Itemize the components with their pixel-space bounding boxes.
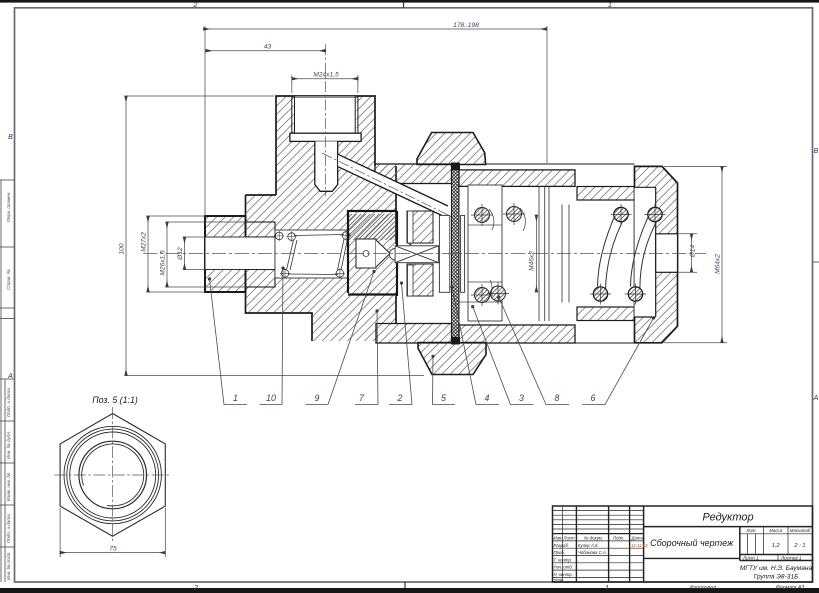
- svg-text:Лит.: Лит.: [745, 528, 756, 533]
- svg-text:Взам. инв. №: Взам. инв. №: [6, 473, 11, 501]
- dim M24x1.5: [291, 75, 293, 93]
- hatched body of reducer: upper part, part 2: [246, 96, 397, 230]
- svg-text:100: 100: [119, 243, 126, 254]
- hex nut boss bottom: [418, 343, 486, 375]
- svg-text:Группа Э8-31Б: Группа Э8-31Б: [754, 574, 800, 581]
- M24 port bore (white plug): [294, 96, 357, 133]
- svg-text:Перв. примен.: Перв. примен.: [6, 191, 11, 222]
- spring chamber white: [275, 230, 348, 278]
- svg-text:Дата: Дата: [631, 536, 644, 541]
- svg-text:Разраб.: Разраб.: [554, 543, 570, 548]
- hex nut boss top, part 5: [417, 133, 486, 165]
- svg-text:9: 9: [315, 393, 320, 403]
- dim 43: [206, 50, 326, 52]
- dim Ø14: [678, 233, 698, 235]
- inclined passage (white channel): [338, 154, 448, 216]
- dim M27x2: [148, 215, 205, 217]
- housing tube walls: [577, 187, 635, 201]
- svg-text:Утв.: Утв.: [554, 577, 564, 582]
- svg-text:Инв. № дубл.: Инв. № дубл.: [6, 431, 11, 459]
- svg-text:М46х2: М46х2: [529, 251, 536, 271]
- body outline upper: [246, 96, 397, 341]
- svg-text:2: 2: [193, 585, 198, 592]
- svg-text:Подп. и дата: Подп. и дата: [6, 388, 11, 417]
- svg-text:Ø12: Ø12: [177, 247, 184, 261]
- svg-text:Т. контр.: Т. контр.: [554, 557, 573, 562]
- dim 100: [126, 95, 274, 97]
- svg-text:1: 1: [233, 393, 238, 403]
- bottom black strip: [0, 588, 819, 593]
- svg-text:5: 5: [441, 393, 446, 403]
- svg-text:Сборочный чертеж: Сборочный чертеж: [650, 538, 734, 548]
- port centreline: [325, 44, 327, 196]
- svg-text:2: 2: [193, 2, 198, 9]
- svg-text:Поз. 5 (1:1): Поз. 5 (1:1): [92, 395, 138, 405]
- cap spring chamber notch (white): [635, 187, 656, 317]
- tube silhouette lines: [486, 163, 635, 165]
- dim 178..198: [204, 26, 206, 216]
- plug stem: [315, 141, 338, 191]
- zone tick bottom: [404, 582, 406, 588]
- passage centreline: [322, 153, 452, 217]
- hexagon: [60, 414, 165, 537]
- svg-text:10: 10: [266, 393, 276, 403]
- dimension texts: [119, 22, 722, 276]
- svg-text:МГТУ им. Н.Э. Баумана: МГТУ им. Н.Э. Баумана: [740, 565, 813, 572]
- dim M46x2: [535, 215, 537, 292]
- valve cage part 9: [348, 211, 397, 296]
- svg-text:4: 4: [485, 393, 490, 403]
- valve guide above/below seal: [407, 211, 433, 243]
- svg-text:Изм.: Изм.: [554, 536, 563, 541]
- svg-text:2: 2: [397, 393, 403, 403]
- retainer pins: [475, 207, 522, 303]
- dim M26x1.5: [167, 221, 205, 223]
- svg-text:Листов 1: Листов 1: [780, 556, 802, 561]
- zone tick right: [813, 261, 819, 263]
- svg-text:Кулер А.К.: Кулер А.К.: [578, 543, 599, 548]
- svg-text:Нач. отд.: Нач. отд.: [554, 565, 573, 570]
- fitting tube walls: [246, 222, 276, 237]
- svg-text:Лист: Лист: [563, 536, 575, 541]
- dim 75: [60, 508, 165, 557]
- horizontals: [644, 526, 813, 528]
- small rows top-left: [553, 510, 644, 512]
- top black strip: [0, 0, 819, 3]
- svg-text:Н. контр.: Н. контр.: [554, 572, 573, 577]
- main axis centreline: [143, 253, 706, 255]
- svg-text:8: 8: [555, 393, 560, 403]
- svg-text:6: 6: [591, 393, 596, 403]
- svg-text:В: В: [8, 134, 13, 141]
- svg-text:Формат А3: Формат А3: [776, 585, 804, 591]
- rubber seal bow-tie: [389, 243, 438, 266]
- svg-text:Копировал: Копировал: [690, 585, 716, 591]
- svg-text:Проб.: Проб.: [554, 550, 566, 555]
- svg-text:1: 1: [605, 585, 609, 592]
- svg-text:1: 1: [608, 2, 612, 9]
- dim M64x2: [664, 165, 727, 167]
- svg-text:Подп. и дата: Подп. и дата: [6, 514, 11, 543]
- svg-text:Справ. №: Справ. №: [6, 269, 11, 290]
- svg-text:Подп.: Подп.: [613, 536, 624, 541]
- plug flange plate: [290, 133, 361, 141]
- title block texts: [650, 512, 812, 581]
- svg-text:В: В: [814, 148, 819, 155]
- svg-text:№ докум.: № докум.: [584, 536, 603, 541]
- svg-text:Масштаб: Масштаб: [790, 528, 811, 533]
- svg-text:Редуктор: Редуктор: [702, 512, 753, 524]
- big spring part 8: [598, 209, 660, 292]
- svg-text:3: 3: [519, 393, 524, 403]
- svg-text:12.11.13: 12.11.13: [631, 543, 648, 548]
- bottom flange band: [376, 324, 452, 344]
- svg-text:М26х1,5: М26х1,5: [160, 250, 167, 276]
- svg-text:М64х2: М64х2: [715, 254, 722, 274]
- svg-text:Инв. № подл.: Инв. № подл.: [6, 551, 11, 580]
- svg-text:Ø14: Ø14: [690, 244, 697, 258]
- svg-text:43: 43: [264, 44, 272, 51]
- left fitting part 1: threaded body: [205, 216, 246, 292]
- svg-text:М24х1,5: М24х1,5: [313, 72, 339, 79]
- top flange band: [375, 164, 452, 184]
- detail centrelines: [112, 407, 114, 542]
- svg-text:178..198: 178..198: [453, 22, 479, 29]
- dim Ø12: [185, 236, 206, 238]
- main verticals: [643, 506, 645, 582]
- left margin stamp boxes: [0, 180, 15, 582]
- left margin labels: [6, 191, 11, 580]
- svg-text:2 : 1: 2 : 1: [794, 543, 806, 549]
- svg-text:Масса: Масса: [769, 528, 783, 533]
- svg-text:75: 75: [109, 546, 117, 553]
- cap stem hole with stem end: [656, 234, 678, 272]
- svg-text:М27х2: М27х2: [141, 232, 148, 252]
- cup walls part 3: [539, 187, 569, 322]
- svg-text:А: А: [813, 395, 819, 402]
- throttle plate: [439, 215, 449, 292]
- end cap part 6: [635, 166, 678, 342]
- small spring part 10: [275, 232, 349, 277]
- piston plates: [461, 215, 465, 292]
- zone tick top: [403, 3, 405, 8]
- membrane part 4 (cross-hatched strip): [452, 163, 460, 344]
- svg-text:1,2: 1,2: [772, 543, 781, 549]
- chamfer circles: [64, 426, 161, 523]
- svg-text:Лист 1: Лист 1: [742, 556, 759, 561]
- fitting bore (white): [205, 237, 275, 270]
- svg-text:Чобанова С.А.: Чобанова С.А.: [578, 550, 607, 555]
- hatched body lower part: [246, 278, 397, 341]
- thread line of fitting: [205, 221, 246, 223]
